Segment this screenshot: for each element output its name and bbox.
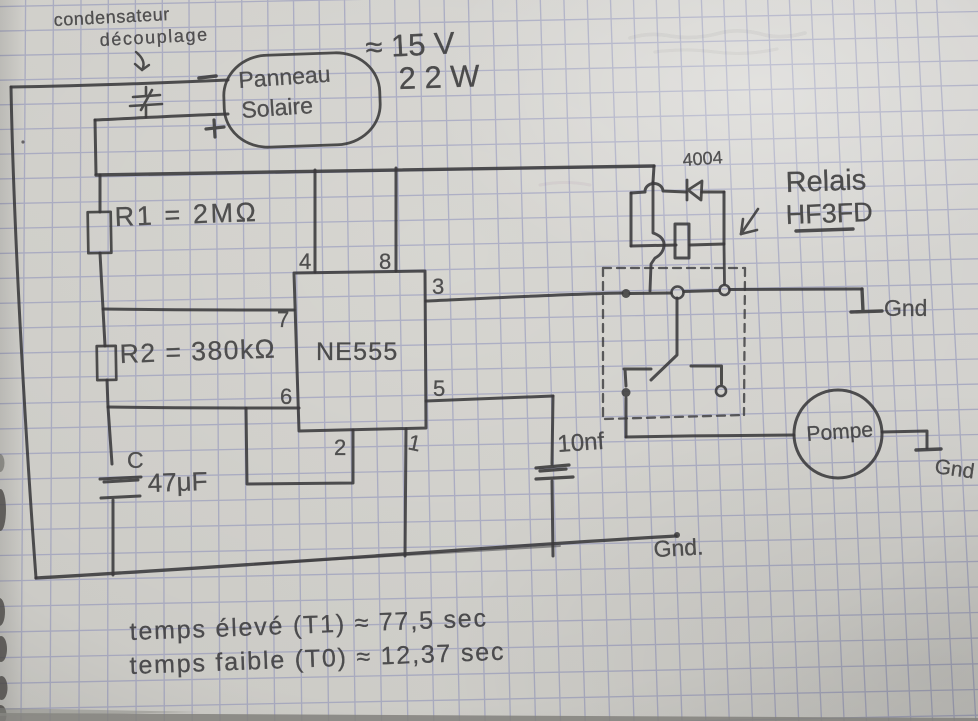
wire pin5 drop: [552, 396, 553, 464]
resistor R2: [97, 346, 117, 380]
ground symbol pump: [916, 449, 941, 450]
wire left vertical rail: [11, 87, 36, 578]
wire relay right to contact: [723, 244, 726, 284]
svg-text:Gnd.: Gnd.: [653, 533, 704, 562]
relay K1 bottom edge: [631, 244, 724, 246]
svg-text:4: 4: [299, 249, 311, 274]
relay K1 top edge with hop: [631, 183, 724, 193]
wire R1 top lead: [99, 175, 102, 212]
relay K1 left edge: [630, 193, 633, 246]
wire C bottom lead: [112, 500, 115, 575]
wire pin4: [314, 170, 317, 272]
photo bottom edge: [0, 713, 978, 721]
dashed relay outline: [603, 268, 745, 421]
wire pump right: [882, 431, 927, 448]
wire R2 top lead: [103, 309, 105, 346]
wire R2 bottom lead: [107, 380, 108, 407]
wire 10nF bottom lead: [552, 481, 553, 556]
contact middle circle: [672, 287, 684, 299]
annotation arrow to relay: [741, 209, 758, 234]
svg-text:HF3FD: HF3FD: [785, 197, 873, 230]
wire main vcc bus: [96, 166, 654, 175]
svg-text:R1 = 2MΩ: R1 = 2MΩ: [114, 197, 259, 232]
minus sign: [199, 76, 216, 78]
wire to pump: [626, 435, 794, 437]
svg-text:7: 7: [277, 307, 289, 332]
svg-text:Relais: Relais: [785, 164, 867, 199]
underline HF3FD: [796, 229, 853, 231]
lower right contact wire: [691, 366, 722, 384]
wire lower left contact drop: [625, 398, 628, 437]
relay coil feed wire: [650, 182, 664, 291]
capacitor C plates: [100, 477, 141, 498]
capacitor decoupling symbol: [130, 87, 162, 117]
pump motor circle: [794, 390, 882, 478]
wire plus vertical drop: [95, 120, 96, 174]
svg-text:5: 5: [433, 376, 445, 401]
contact right circle: [720, 285, 730, 295]
wire pin2 loop: [246, 408, 353, 484]
wire top minus rail: [11, 80, 228, 87]
wire pin5: [426, 396, 553, 401]
wire pin1: [405, 429, 406, 556]
svg-text:R2 = 380kΩ: R2 = 380kΩ: [119, 334, 276, 369]
wire pin7: [103, 309, 294, 310]
wire pin8: [395, 168, 398, 271]
svg-text:3: 3: [432, 274, 444, 299]
svg-text:Pompe: Pompe: [806, 418, 874, 446]
ghost pencil marks: [630, 31, 805, 38]
node contact common left (dot): [622, 289, 631, 298]
switch lever: [651, 298, 677, 380]
wire ground bus second stroke: [255, 546, 560, 564]
node lower left contact dot: [622, 388, 631, 397]
svg-text:NE555: NE555: [316, 338, 398, 366]
resistor R1: [88, 212, 112, 253]
wire bus corner to relay feed: [653, 166, 654, 182]
svg-text:10nf: 10nf: [557, 428, 606, 458]
ground symbol relay right: [851, 289, 882, 312]
wire contacts row: [630, 289, 862, 294]
op IC NE555 box U1: [294, 271, 426, 431]
wire ground bus bottom: [36, 536, 676, 578]
svg-text:Gnd: Gnd: [884, 295, 927, 321]
relay coil rectangle: [675, 224, 689, 258]
lower left contact wire: [624, 369, 651, 386]
svg-text:2 2 W: 2 2 W: [398, 58, 481, 96]
wire pin3: [426, 293, 622, 301]
wire pin6: [108, 407, 299, 408]
solar panel oval: [222, 51, 381, 148]
wire plus rail horizontal: [95, 114, 228, 120]
relay K1 right edge: [723, 192, 726, 244]
svg-text:6: 6: [280, 384, 292, 409]
wire R1 bottom lead: [100, 253, 103, 309]
plus sign: [206, 120, 224, 137]
notebook binding blobs: [0, 454, 8, 721]
stray pen dot: [21, 140, 24, 143]
svg-text:8: 8: [379, 249, 391, 274]
svg-text:C: C: [127, 447, 144, 473]
svg-text:2: 2: [334, 435, 346, 460]
wire C top lead: [108, 407, 112, 464]
diode D1 1N4004: [687, 180, 702, 200]
svg-text:47μF: 47μF: [147, 466, 208, 498]
svg-text:Solaire: Solaire: [241, 92, 314, 123]
annotation arrow small: [135, 52, 149, 70]
capacitor 10nF plates: [536, 465, 573, 479]
svg-text:4004: 4004: [682, 147, 723, 170]
contact lower right circle: [716, 386, 726, 396]
node ground bus end dot: [674, 532, 680, 538]
